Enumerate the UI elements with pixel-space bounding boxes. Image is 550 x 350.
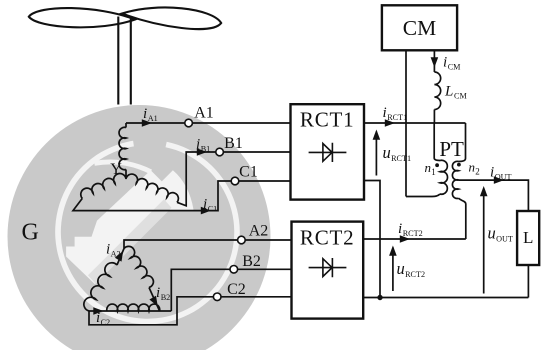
- svg-text:A1: A1: [148, 114, 158, 123]
- svg-text:RCT1: RCT1: [300, 107, 355, 131]
- svg-text:u: u: [397, 259, 405, 278]
- svg-text:CM: CM: [403, 16, 436, 40]
- svg-text:C1: C1: [239, 164, 258, 181]
- svg-text:i: i: [443, 55, 447, 71]
- svg-text:L: L: [444, 84, 453, 100]
- svg-text:B1: B1: [224, 135, 243, 152]
- svg-text:RCT1: RCT1: [391, 154, 411, 163]
- svg-text:L: L: [523, 228, 533, 247]
- svg-text:2: 2: [475, 166, 480, 176]
- svg-text:n: n: [469, 160, 476, 175]
- svg-text:G: G: [22, 220, 39, 246]
- svg-text:u: u: [488, 224, 496, 243]
- svg-text:RCT2: RCT2: [300, 226, 355, 250]
- svg-text:i: i: [156, 285, 160, 301]
- svg-text:Y: Y: [110, 161, 122, 178]
- svg-text:PT: PT: [439, 137, 464, 161]
- svg-text:i: i: [196, 137, 200, 153]
- svg-text:C2: C2: [227, 281, 246, 298]
- svg-text:i: i: [383, 105, 387, 121]
- svg-text:C2: C2: [101, 318, 111, 327]
- svg-text:i: i: [96, 310, 100, 326]
- svg-text:A2: A2: [249, 222, 269, 239]
- svg-text:OUT: OUT: [495, 172, 512, 181]
- svg-text:i: i: [143, 106, 147, 122]
- svg-text:B2: B2: [161, 293, 171, 302]
- svg-text:RCT1: RCT1: [387, 113, 407, 122]
- svg-text:i: i: [106, 242, 110, 258]
- svg-text:C1: C1: [208, 204, 218, 213]
- svg-text:i: i: [203, 197, 207, 213]
- svg-text:CM: CM: [454, 91, 467, 100]
- svg-text:i: i: [490, 165, 494, 181]
- svg-text:RCT2: RCT2: [403, 229, 423, 238]
- svg-text:i: i: [398, 221, 402, 237]
- svg-text:u: u: [383, 143, 391, 162]
- svg-text:A2: A2: [111, 249, 121, 258]
- svg-text:B1: B1: [201, 144, 211, 153]
- svg-text:OUT: OUT: [496, 234, 513, 243]
- svg-text:CM: CM: [448, 62, 461, 71]
- svg-text:B2: B2: [242, 253, 261, 270]
- svg-text:A1: A1: [194, 104, 214, 121]
- svg-text:n: n: [425, 160, 432, 175]
- svg-text:1: 1: [431, 167, 436, 177]
- svg-text:RCT2: RCT2: [405, 270, 425, 279]
